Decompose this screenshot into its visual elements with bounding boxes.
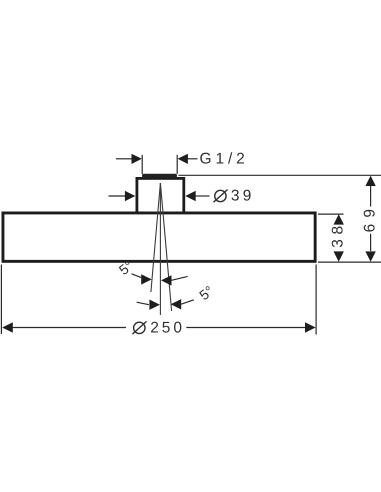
svg-text:8: 8 — [330, 226, 347, 235]
svg-text:G1/2: G1/2 — [200, 150, 249, 167]
svg-text:9: 9 — [362, 209, 379, 218]
svg-text:250: 250 — [150, 320, 185, 337]
svg-text:3: 3 — [330, 239, 347, 248]
svg-text:39: 39 — [231, 188, 255, 205]
svg-text:6: 6 — [362, 224, 379, 233]
